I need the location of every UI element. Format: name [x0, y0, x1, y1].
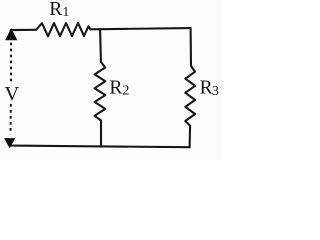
wire right branch top stem: [190, 28, 192, 66]
wire middle branch top stem: [99, 29, 102, 62]
wire top-left segment: [11, 29, 36, 31]
wire middle branch bottom stem: [100, 121, 102, 147]
voltage arrow up: [6, 28, 17, 40]
voltage arrow down: [4, 138, 15, 148]
voltage dashed line lower: [10, 104, 12, 134]
svg-text:R2: R2: [109, 78, 129, 99]
wire bottom: [11, 146, 190, 148]
svg-text:R1: R1: [49, 0, 69, 20]
svg-text:V: V: [5, 83, 20, 105]
resistor R3: [185, 66, 195, 126]
resistor R2: [95, 62, 106, 121]
wire right branch bottom stem: [189, 126, 192, 147]
wire top-right segment: [90, 28, 190, 29]
resistor R1: [36, 23, 90, 36]
svg-text:R3: R3: [200, 78, 219, 99]
voltage dashed line upper: [10, 43, 12, 84]
